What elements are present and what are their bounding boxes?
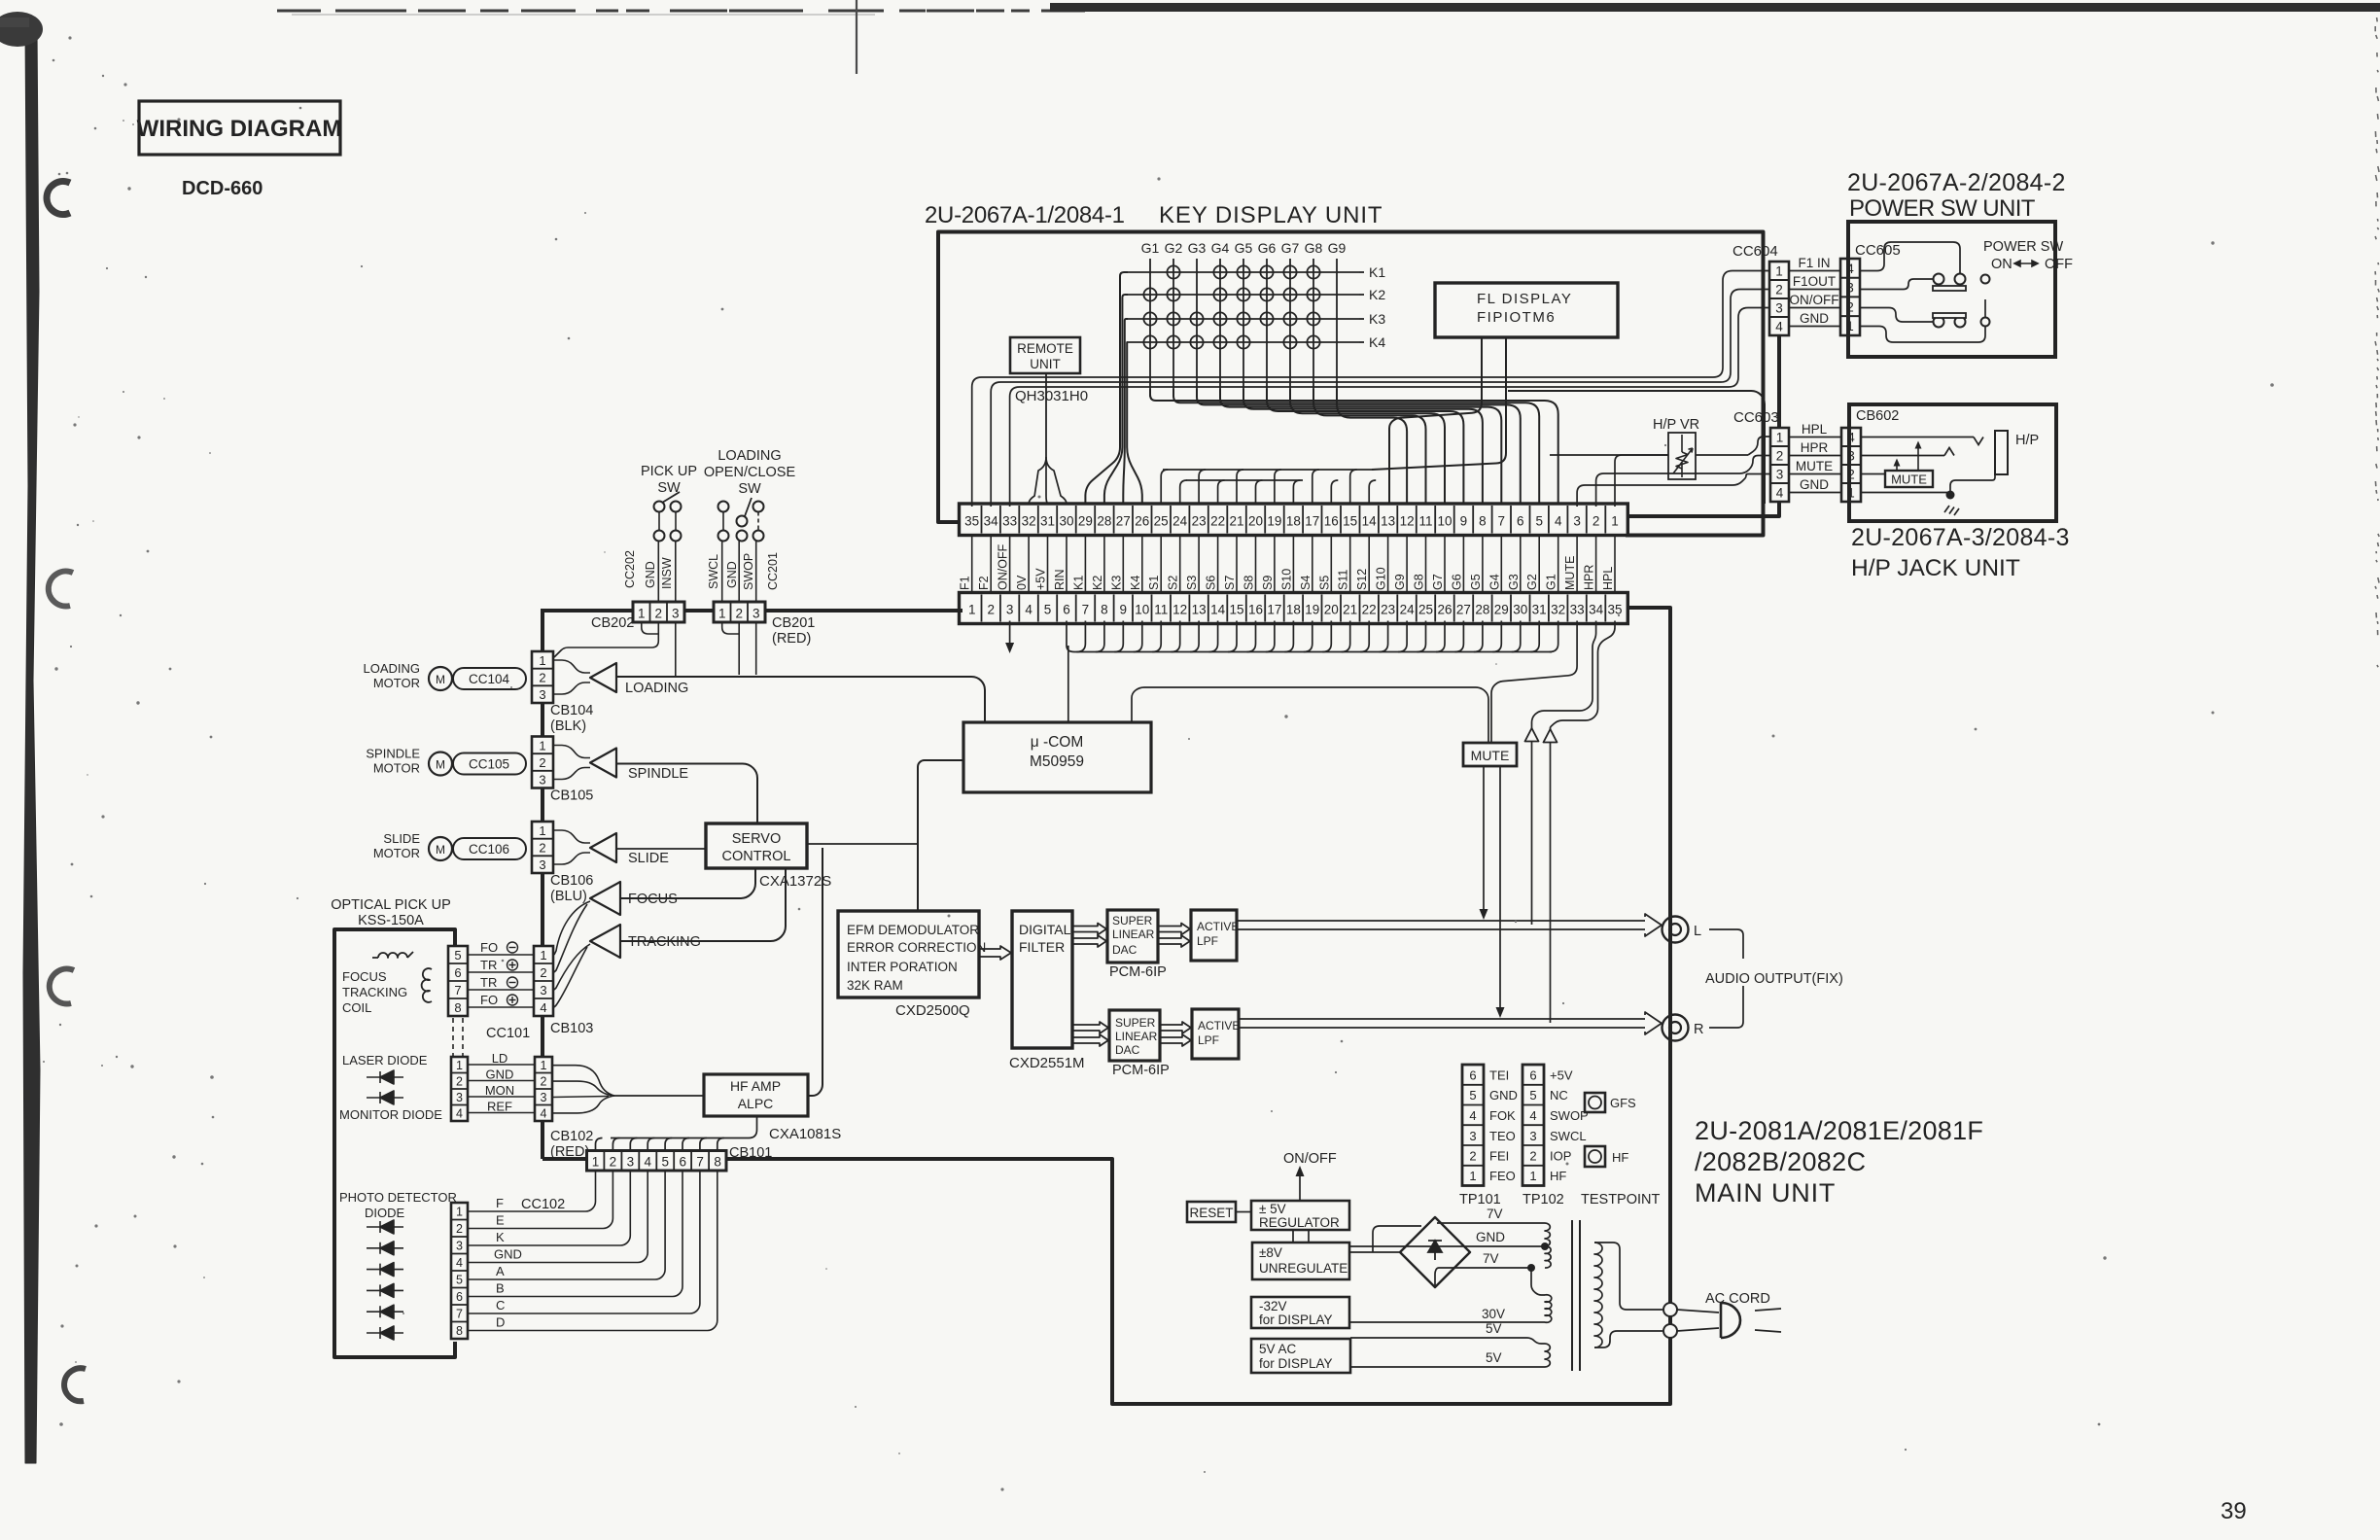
svg-text:CC202: CC202 — [623, 550, 637, 588]
testpoint table TP102 — [1522, 1065, 1544, 1186]
svg-text:COIL: COIL — [342, 1000, 371, 1015]
svg-text:K3: K3 — [1109, 576, 1123, 590]
svg-text:CC101: CC101 — [486, 1026, 530, 1041]
svg-text:3: 3 — [627, 1155, 635, 1170]
svg-text:μ -COM: μ -COM — [1031, 734, 1084, 751]
svg-text:G9: G9 — [1393, 574, 1407, 590]
svg-text:D: D — [496, 1315, 505, 1330]
svg-text:10: 10 — [1135, 603, 1149, 617]
svg-text:8: 8 — [1101, 603, 1108, 617]
svg-text:G6: G6 — [1258, 240, 1277, 256]
svg-text:1: 1 — [592, 1155, 600, 1170]
svg-text:16: 16 — [1248, 603, 1263, 617]
svg-text:G7: G7 — [1431, 574, 1445, 590]
svg-text:7: 7 — [456, 1308, 463, 1321]
svg-text:4: 4 — [456, 1256, 463, 1270]
svg-text:FEI: FEI — [1489, 1149, 1509, 1164]
connector CC604 — [1769, 262, 1789, 335]
transformer primary winding — [1594, 1242, 1602, 1347]
svg-text:MUTE: MUTE — [1563, 556, 1577, 590]
main unit thick boundary — [726, 608, 1670, 1404]
svg-text:5: 5 — [1529, 1088, 1536, 1102]
svg-text:4: 4 — [1555, 514, 1562, 529]
audio output jack R — [1662, 1015, 1689, 1041]
jack ground net — [1861, 492, 1950, 494]
driver triangle SLIDE — [590, 833, 616, 862]
svg-text:1: 1 — [539, 653, 545, 668]
svg-text:G9: G9 — [1328, 240, 1347, 256]
svg-text:ON: ON — [1991, 257, 2012, 272]
svg-text:2: 2 — [1529, 1149, 1536, 1164]
svg-text:10: 10 — [1437, 514, 1452, 529]
svg-text:S9: S9 — [1261, 576, 1275, 590]
svg-text:PCM-6IP: PCM-6IP — [1109, 964, 1167, 980]
connector CC101 coil side — [448, 946, 468, 1016]
svg-text:POWER SW UNIT: POWER SW UNIT — [1849, 195, 2036, 222]
svg-text:CB201: CB201 — [772, 615, 815, 631]
svg-text:G1: G1 — [1141, 240, 1160, 256]
wires CC604 to CC605 — [1789, 270, 1840, 272]
wires CB102 to HF amp — [552, 1066, 614, 1096]
svg-text:KSS-150A: KSS-150A — [358, 913, 424, 928]
headphone jack unit box — [1849, 404, 2056, 521]
svg-text:LOADING: LOADING — [363, 661, 420, 676]
svg-text:for DISPLAY: for DISPLAY — [1259, 1356, 1333, 1371]
svg-text:34: 34 — [1589, 603, 1604, 617]
transformer winding 1 — [1545, 1223, 1550, 1246]
svg-text:(RED): (RED) — [550, 1144, 589, 1160]
svg-text:ON/OFF: ON/OFF — [1283, 1151, 1337, 1167]
svg-text:31: 31 — [1040, 514, 1055, 529]
svg-text:G7: G7 — [1281, 240, 1300, 256]
svg-text:G3: G3 — [1188, 240, 1207, 256]
wire segment bus lines to S pins — [1163, 469, 1372, 471]
svg-text:B: B — [496, 1281, 505, 1296]
driver triangle LOADING — [590, 663, 616, 692]
svg-text:K2: K2 — [1369, 287, 1385, 302]
svg-text:MAIN UNIT: MAIN UNIT — [1695, 1178, 1836, 1207]
svg-text:1: 1 — [1529, 1169, 1536, 1183]
svg-text:TR: TR — [480, 975, 497, 990]
svg-text:FL DISPLAY: FL DISPLAY — [1477, 291, 1572, 307]
svg-text:0V: 0V — [1015, 575, 1029, 590]
svg-text:3: 3 — [1573, 514, 1581, 529]
svg-text:for DISPLAY: for DISPLAY — [1259, 1312, 1333, 1327]
svg-text:GND: GND — [1489, 1088, 1518, 1102]
svg-text:13: 13 — [1381, 514, 1395, 529]
svg-text:1: 1 — [1776, 431, 1784, 445]
svg-text:14: 14 — [1362, 514, 1378, 529]
connector CC605 — [1840, 259, 1860, 335]
bridge rectifier — [1400, 1217, 1470, 1287]
svg-text:F1OUT: F1OUT — [1793, 274, 1836, 289]
svg-text:15: 15 — [1229, 603, 1243, 617]
wires 8V to bridge — [1349, 1251, 1400, 1253]
connector CB202 — [633, 602, 684, 622]
wire servo to ucom and EFM bus — [807, 843, 918, 845]
svg-text:GND: GND — [725, 561, 739, 588]
svg-text:PHOTO DETECTOR: PHOTO DETECTOR — [339, 1190, 457, 1205]
svg-text:2U-2067A-2/2084-2: 2U-2067A-2/2084-2 — [1847, 169, 2066, 196]
svg-text:2: 2 — [987, 603, 995, 617]
svg-text:SUPER: SUPER — [1115, 1016, 1156, 1030]
svg-text:MOTOR: MOTOR — [373, 676, 420, 690]
svg-text:GND: GND — [644, 561, 657, 588]
svg-text:DCD-660: DCD-660 — [182, 178, 262, 199]
SLIDE motor symbol — [429, 837, 452, 860]
HF amp box — [704, 1074, 808, 1116]
scan artifact: right edge noise strip — [2376, 17, 2379, 21]
connector column LOADING — [532, 651, 553, 703]
svg-text:ERROR CORRECTION: ERROR CORRECTION — [847, 940, 986, 955]
svg-text:HPL: HPL — [1802, 422, 1828, 437]
svg-text:TESTPOINT: TESTPOINT — [1581, 1192, 1661, 1207]
svg-text:4: 4 — [1776, 486, 1784, 501]
svg-text:CXD2551M: CXD2551M — [1009, 1055, 1085, 1071]
svg-text:G2: G2 — [1165, 240, 1183, 256]
svg-text:S10: S10 — [1279, 569, 1293, 590]
svg-text:RESET: RESET — [1189, 1206, 1233, 1220]
svg-text:-32V: -32V — [1259, 1299, 1287, 1313]
svg-text:LD: LD — [492, 1051, 508, 1066]
svg-text:12: 12 — [1172, 603, 1187, 617]
primary leads to AC — [1594, 1242, 1662, 1310]
svg-text:1: 1 — [541, 1059, 547, 1072]
svg-text:27: 27 — [1456, 603, 1471, 617]
svg-text:HF AMP: HF AMP — [730, 1078, 781, 1094]
svg-text:ON/OFF: ON/OFF — [997, 543, 1010, 590]
jack sleeve symbol — [1995, 431, 2008, 474]
svg-text:4: 4 — [1025, 603, 1032, 617]
svg-text:1: 1 — [539, 739, 545, 753]
svg-text:1: 1 — [456, 1206, 463, 1219]
svg-text:15: 15 — [1343, 514, 1357, 529]
svg-text:7V: 7V — [1487, 1207, 1503, 1221]
EFM demodulator box — [838, 911, 979, 997]
active LPF 1 box — [1191, 910, 1237, 961]
svg-text:5: 5 — [1535, 514, 1543, 529]
svg-text:30: 30 — [1059, 514, 1073, 529]
svg-text:CC106: CC106 — [469, 842, 509, 857]
svg-text:FIPIOTM6: FIPIOTM6 — [1477, 309, 1556, 326]
connector capsule CC105 — [453, 753, 526, 775]
H/P VR variable resistor — [1668, 433, 1696, 479]
audio line L pair with arrow — [1237, 920, 1645, 922]
svg-text:3: 3 — [1529, 1129, 1536, 1143]
svg-text:3: 3 — [539, 687, 545, 702]
svg-text:2: 2 — [1469, 1149, 1476, 1164]
svg-text:PCM-6IP: PCM-6IP — [1112, 1063, 1170, 1078]
svg-text:S2: S2 — [1167, 576, 1180, 590]
thick bus strip to CC603 GND — [1629, 502, 1779, 516]
svg-text:CB106: CB106 — [550, 873, 593, 889]
scan artifact: binder hole 3 — [50, 968, 74, 1003]
svg-text:TP102: TP102 — [1522, 1192, 1564, 1207]
minus 32V display box — [1251, 1297, 1349, 1328]
pick up switch contacts — [654, 502, 665, 512]
svg-text:21: 21 — [1229, 514, 1243, 529]
svg-text:3: 3 — [672, 607, 680, 621]
FL display box — [1435, 283, 1618, 337]
svg-text:19: 19 — [1305, 603, 1319, 617]
svg-text:DIGITAL: DIGITAL — [1019, 922, 1071, 937]
svg-text:28: 28 — [1475, 603, 1489, 617]
svg-text:OPTICAL PICK UP: OPTICAL PICK UP — [331, 897, 451, 913]
wire FL to right vertical — [1508, 391, 1765, 504]
svg-text:3: 3 — [456, 1091, 463, 1104]
svg-text:K2: K2 — [1091, 576, 1104, 590]
wire focus to servo bottom — [620, 868, 755, 898]
svg-text:7: 7 — [454, 983, 461, 997]
microcomputer uCOM M50959 box — [963, 722, 1151, 792]
svg-text:1: 1 — [1775, 264, 1783, 279]
svg-text:FOK: FOK — [1489, 1108, 1516, 1123]
svg-text:H/P JACK UNIT: H/P JACK UNIT — [1851, 555, 2020, 581]
svg-text:L: L — [1694, 924, 1701, 939]
svg-text:FILTER: FILTER — [1019, 939, 1065, 955]
svg-text:G5: G5 — [1235, 240, 1253, 256]
svg-text:SW: SW — [738, 481, 761, 497]
svg-text:G2: G2 — [1525, 574, 1539, 590]
super linear DAC 2 box — [1109, 1010, 1160, 1061]
wires SPINDLE connector to driver — [553, 746, 590, 758]
svg-text:2: 2 — [456, 1075, 463, 1089]
optical pickup box — [334, 929, 455, 1357]
svg-text:26: 26 — [1437, 603, 1452, 617]
arrows DAC2 to LPF2 — [1160, 1022, 1191, 1033]
svg-text:3: 3 — [1775, 301, 1783, 316]
power switch contacts upper — [1934, 274, 1944, 285]
svg-text:3: 3 — [539, 857, 545, 872]
wire HPR to CC603 — [1596, 456, 1770, 507]
svg-text:29: 29 — [1078, 514, 1093, 529]
connector photo CC102 — [451, 1203, 468, 1339]
svg-text:6: 6 — [1517, 514, 1524, 529]
svg-text:A: A — [496, 1264, 505, 1278]
svg-text:INSW: INSW — [660, 557, 674, 589]
transformer winding 3 5V — [1350, 1338, 1545, 1344]
wire INSW drop — [675, 623, 677, 676]
reset box — [1187, 1202, 1236, 1222]
svg-text:UNIT: UNIT — [1030, 357, 1061, 371]
svg-text:2: 2 — [655, 607, 663, 621]
tracking driver triangle — [590, 925, 620, 958]
svg-text:S3: S3 — [1185, 576, 1199, 590]
digital filter box — [1012, 911, 1072, 1048]
svg-text:S6: S6 — [1205, 576, 1218, 590]
svg-text:26: 26 — [1135, 514, 1149, 529]
svg-text:R: R — [1694, 1022, 1703, 1037]
wire remote unit to RIN 0V +5V pins — [1045, 373, 1047, 457]
svg-text:30V: 30V — [1482, 1307, 1505, 1321]
arrows DAC1 to LPF1 — [1158, 924, 1190, 935]
connector CB101 — [587, 1151, 727, 1172]
svg-text:WIRING DIAGRAM: WIRING DIAGRAM — [137, 116, 342, 142]
arrow EFM to digital filter — [979, 946, 1011, 960]
connector CB102 — [535, 1057, 552, 1121]
scan artifact: binder hole 2 — [49, 571, 73, 606]
svg-text:5V: 5V — [1486, 1321, 1502, 1336]
svg-text:ALPC: ALPC — [738, 1096, 774, 1111]
unregulated +-8V box — [1252, 1242, 1349, 1279]
svg-text:25: 25 — [1418, 603, 1433, 617]
svg-text:MOTOR: MOTOR — [373, 761, 420, 776]
svg-text:PICK UP: PICK UP — [641, 464, 697, 479]
title box WIRING DIAGRAM — [139, 101, 340, 155]
AC plug symbol — [1677, 1310, 1719, 1312]
wires power switch — [1860, 242, 1960, 273]
power sw unit box — [1848, 222, 2055, 357]
svg-text:5: 5 — [456, 1274, 463, 1287]
svg-text:REMOTE: REMOTE — [1017, 341, 1073, 356]
svg-text:G8: G8 — [1413, 574, 1426, 590]
svg-text:TEO: TEO — [1489, 1129, 1516, 1143]
svg-text:K4: K4 — [1369, 334, 1385, 350]
svg-text:G4: G4 — [1211, 240, 1230, 256]
svg-text:CXD2500Q: CXD2500Q — [895, 1002, 970, 1019]
scan artifact: page edge mark top — [856, 0, 857, 74]
key switches — [1167, 265, 1179, 278]
driver triangle SPINDLE — [590, 749, 616, 778]
svg-text:2: 2 — [539, 671, 545, 685]
svg-text:3: 3 — [540, 983, 546, 997]
svg-text:2: 2 — [456, 1222, 463, 1236]
wire slide to servo — [616, 848, 706, 850]
svg-text:5: 5 — [662, 1155, 670, 1170]
wires laser conn to CB102 — [468, 1064, 535, 1066]
svg-text:7: 7 — [1498, 514, 1506, 529]
wires CC603 to CB602 — [1789, 437, 1841, 438]
wires SLIDE connector to driver — [553, 830, 590, 843]
AC feedthrough terminals — [1663, 1303, 1677, 1316]
svg-text:DAC: DAC — [1115, 1043, 1140, 1057]
svg-text:GND: GND — [494, 1247, 522, 1262]
svg-text:SWOP: SWOP — [742, 553, 755, 590]
svg-text:5: 5 — [1469, 1088, 1476, 1102]
svg-text:2: 2 — [541, 1075, 547, 1089]
connector laser CC101 lower — [451, 1057, 468, 1121]
sense triangle L — [1525, 728, 1539, 742]
svg-text:2: 2 — [1592, 514, 1600, 529]
svg-text:S1: S1 — [1147, 576, 1161, 590]
connector strip bottom row pins 1-35 — [960, 593, 1628, 624]
svg-text:2: 2 — [539, 841, 545, 856]
svg-text:4: 4 — [456, 1107, 463, 1121]
svg-text:OPEN/CLOSE: OPEN/CLOSE — [704, 465, 796, 480]
key matrix K row lines and labels K1-K4 — [1128, 271, 1359, 273]
svg-text:7V: 7V — [1483, 1251, 1499, 1266]
focus driver triangle — [590, 882, 620, 915]
super linear DAC 1 box — [1107, 910, 1158, 962]
connector CB602 — [1841, 428, 1861, 502]
svg-text:E: E — [496, 1213, 505, 1228]
svg-text:G5: G5 — [1469, 574, 1483, 590]
svg-text:ON/OFF: ON/OFF — [1790, 293, 1839, 307]
svg-text:CC105: CC105 — [469, 757, 509, 772]
testpoint table TP101 — [1462, 1065, 1484, 1186]
monitor diode symbol — [367, 1091, 403, 1104]
svg-text:SPINDLE: SPINDLE — [366, 747, 420, 761]
testpoint HF — [1585, 1146, 1605, 1167]
svg-text:DAC: DAC — [1112, 943, 1137, 957]
svg-text:M: M — [436, 673, 445, 686]
key matrix G column lines — [1149, 259, 1151, 397]
svg-text:H/P VR: H/P VR — [1653, 417, 1699, 433]
svg-text:GND: GND — [486, 1067, 514, 1082]
svg-text:4: 4 — [541, 1107, 547, 1121]
svg-text:8: 8 — [456, 1324, 463, 1338]
svg-text:REGULATOR: REGULATOR — [1259, 1215, 1340, 1230]
svg-text:11: 11 — [1154, 603, 1168, 617]
svg-text:1: 1 — [456, 1059, 463, 1072]
connector capsule CC106 — [453, 838, 526, 859]
wire SWOP drop — [755, 623, 757, 675]
svg-text:CB102: CB102 — [550, 1129, 593, 1144]
strip pin riser curves to bus — [1076, 621, 1085, 652]
connector strip top row pins 35-1 — [960, 504, 1628, 536]
svg-text:CB602: CB602 — [1856, 408, 1899, 424]
mute output to R with arrow — [1499, 766, 1501, 1008]
svg-text:GND: GND — [1476, 1230, 1505, 1244]
svg-text:24: 24 — [1172, 514, 1188, 529]
svg-text:2U-2081A/2081E/2081F: 2U-2081A/2081E/2081F — [1695, 1116, 1983, 1145]
svg-text:EFM DEMODULATOR: EFM DEMODULATOR — [847, 923, 979, 937]
svg-text:35: 35 — [1607, 603, 1622, 617]
svg-text:AC CORD: AC CORD — [1705, 1291, 1770, 1307]
focus coil symbol horizontal — [372, 952, 413, 958]
svg-text:GND: GND — [1800, 311, 1829, 326]
svg-text:S7: S7 — [1223, 576, 1237, 590]
svg-text:RIN: RIN — [1053, 569, 1067, 590]
svg-text:FO: FO — [480, 993, 498, 1007]
svg-text:23: 23 — [1192, 514, 1207, 529]
svg-text:CC102: CC102 — [521, 1197, 565, 1212]
transformer core — [1571, 1220, 1573, 1371]
svg-text:5: 5 — [454, 948, 461, 962]
svg-text:7: 7 — [1082, 603, 1090, 617]
svg-text:SLIDE: SLIDE — [383, 831, 420, 846]
svg-text:TP101: TP101 — [1459, 1192, 1501, 1207]
svg-text:K1: K1 — [1071, 576, 1085, 590]
svg-text:+5V: +5V — [1034, 568, 1048, 590]
active LPF 2 box — [1192, 1009, 1239, 1059]
svg-text:HF: HF — [1550, 1169, 1566, 1183]
key matrix left K feed lines — [1120, 272, 1128, 418]
svg-text:CC603: CC603 — [1733, 409, 1779, 426]
svg-text:FOCUS: FOCUS — [342, 969, 387, 984]
transformer winding 2 30V — [1531, 1268, 1545, 1295]
svg-text:G4: G4 — [1487, 574, 1501, 590]
svg-text:1: 1 — [638, 607, 646, 621]
regulator +-5V box — [1251, 1201, 1349, 1230]
svg-text:6: 6 — [1469, 1068, 1476, 1083]
svg-text:12: 12 — [1400, 514, 1415, 529]
svg-text:LOADING: LOADING — [717, 448, 781, 464]
svg-text:G1: G1 — [1545, 574, 1558, 590]
svg-text:3: 3 — [1469, 1129, 1476, 1143]
svg-text:M50959: M50959 — [1030, 753, 1084, 770]
svg-text:CC604: CC604 — [1732, 243, 1778, 260]
svg-text:INTER PORATION: INTER PORATION — [847, 960, 958, 974]
svg-text:20: 20 — [1324, 603, 1339, 617]
svg-text:4: 4 — [1529, 1108, 1536, 1123]
svg-text:SPINDLE: SPINDLE — [628, 766, 688, 782]
svg-text:SWCL: SWCL — [707, 554, 720, 589]
svg-text:SERVO: SERVO — [732, 831, 782, 847]
svg-text:1: 1 — [539, 823, 545, 838]
svg-text:CC605: CC605 — [1855, 242, 1901, 259]
svg-text:LINEAR: LINEAR — [1112, 927, 1155, 941]
